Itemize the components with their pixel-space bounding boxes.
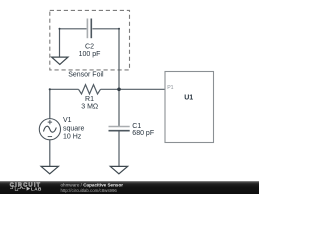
svg-text:C1: C1: [132, 123, 141, 130]
svg-text:Sensor Foil: Sensor Foil: [68, 72, 104, 79]
svg-text:3 MΩ: 3 MΩ: [81, 104, 98, 111]
svg-text:LAB: LAB: [31, 186, 42, 191]
svg-text:100 pF: 100 pF: [79, 51, 101, 58]
svg-text:R1: R1: [85, 96, 94, 103]
svg-text:U1: U1: [184, 95, 193, 102]
svg-text:C2: C2: [85, 43, 94, 50]
svg-text:ohmware / Capacitive Sensor: ohmware / Capacitive Sensor: [61, 183, 124, 188]
svg-text:V1: V1: [63, 117, 72, 124]
svg-text:P1: P1: [167, 85, 173, 91]
svg-text:square: square: [63, 125, 85, 132]
svg-text:10 Hz: 10 Hz: [63, 133, 82, 140]
svg-text:http://circuitlab.com/c8ws996: http://circuitlab.com/c8ws996: [61, 188, 118, 193]
svg-text:680 pF: 680 pF: [132, 130, 154, 137]
